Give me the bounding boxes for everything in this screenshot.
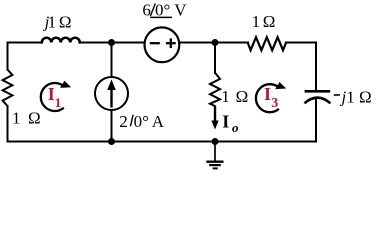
svg-text:3: 3 — [271, 96, 278, 111]
svg-text:1: 1 — [252, 12, 261, 31]
svg-text:Ω: Ω — [28, 109, 41, 128]
svg-text:1: 1 — [48, 13, 57, 32]
svg-text:I: I — [264, 84, 271, 104]
svg-text:Ω: Ω — [236, 87, 249, 106]
svg-text:1: 1 — [12, 109, 21, 128]
svg-text:1: 1 — [221, 87, 230, 106]
svg-text:j1 Ω: j1 Ω — [340, 87, 372, 106]
svg-text:2: 2 — [119, 112, 128, 131]
svg-text:1: 1 — [55, 95, 62, 110]
svg-text:o: o — [232, 120, 239, 135]
svg-text:I: I — [48, 84, 55, 104]
svg-text:Ω: Ω — [59, 13, 72, 32]
svg-text:A: A — [152, 112, 165, 131]
svg-text:Ω: Ω — [263, 12, 276, 31]
svg-text:0°: 0° — [134, 112, 149, 131]
svg-text:6: 6 — [142, 1, 151, 20]
svg-text:V: V — [174, 1, 187, 20]
svg-text:I: I — [222, 112, 229, 132]
